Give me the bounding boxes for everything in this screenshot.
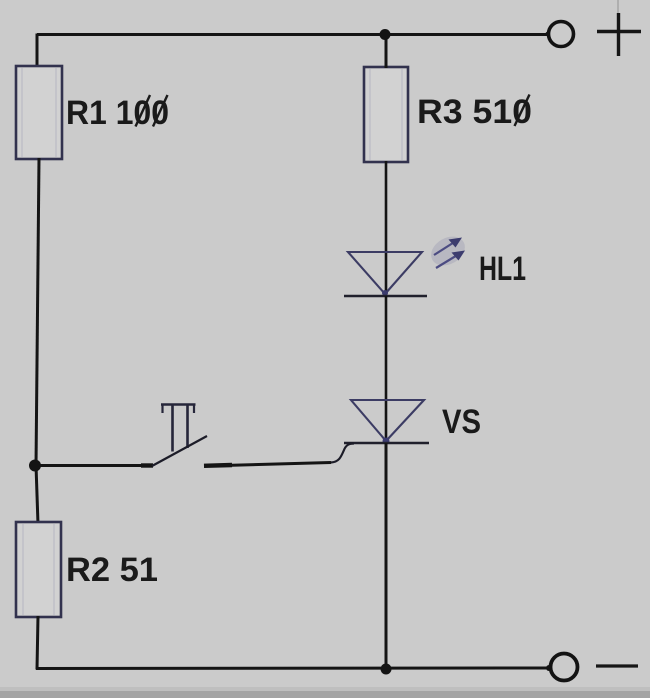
label: plus polarity mark bbox=[597, 0, 641, 56]
LED HL1 light emission arrows bbox=[426, 231, 470, 272]
wire: top rail from R1 corner to + terminal bbox=[37, 33, 548, 36]
wire: R1 down to left junction bbox=[36, 158, 39, 466]
wire: top junction into R3 bbox=[385, 34, 388, 68]
pushbutton actuator bbox=[161, 404, 196, 452]
wire: R3 down through LED to its cathode bar bbox=[385, 161, 388, 296]
label: minus polarity mark bbox=[596, 664, 638, 667]
wire: gate lead rising to thyristor cathode bbox=[331, 444, 354, 463]
label R3 510 bbox=[419, 95, 530, 127]
wire: switch right contact toward thyristor gate bbox=[204, 463, 331, 467]
wire: R2 down to bottom rail corner bbox=[37, 616, 38, 670]
label HL1 bbox=[481, 257, 526, 280]
node: top junction dot bbox=[380, 29, 391, 40]
label R1 100 bbox=[68, 95, 168, 127]
wire: thyristor cathode down to bottom junction bbox=[385, 443, 388, 669]
label VS bbox=[442, 409, 480, 433]
node: bottom junction dot bbox=[381, 664, 392, 675]
resistor R3 bbox=[364, 67, 408, 162]
resistor R2 bbox=[16, 522, 61, 617]
wire: top-left drop into R1 bbox=[36, 34, 39, 68]
pushbutton moving blade bbox=[152, 436, 207, 466]
wire: left junction down into R2 bbox=[36, 465, 38, 524]
wire: left junction to switch left contact bbox=[35, 464, 153, 467]
thyristor VS triangle bbox=[351, 400, 424, 445]
thyristor VS cathode bar bbox=[344, 442, 429, 445]
LED HL1 triangle bbox=[348, 252, 422, 296]
terminal - circle bbox=[546, 654, 578, 681]
LED HL1 cathode bar bbox=[344, 295, 427, 298]
node: left junction dot bbox=[29, 460, 41, 472]
wire: LED down to thyristor bbox=[385, 296, 388, 443]
resistor R1 bbox=[16, 66, 62, 159]
label R2 51 bbox=[68, 557, 157, 581]
wire: bottom rail to - terminal bbox=[36, 667, 550, 671]
terminal + circle bbox=[545, 22, 573, 47]
